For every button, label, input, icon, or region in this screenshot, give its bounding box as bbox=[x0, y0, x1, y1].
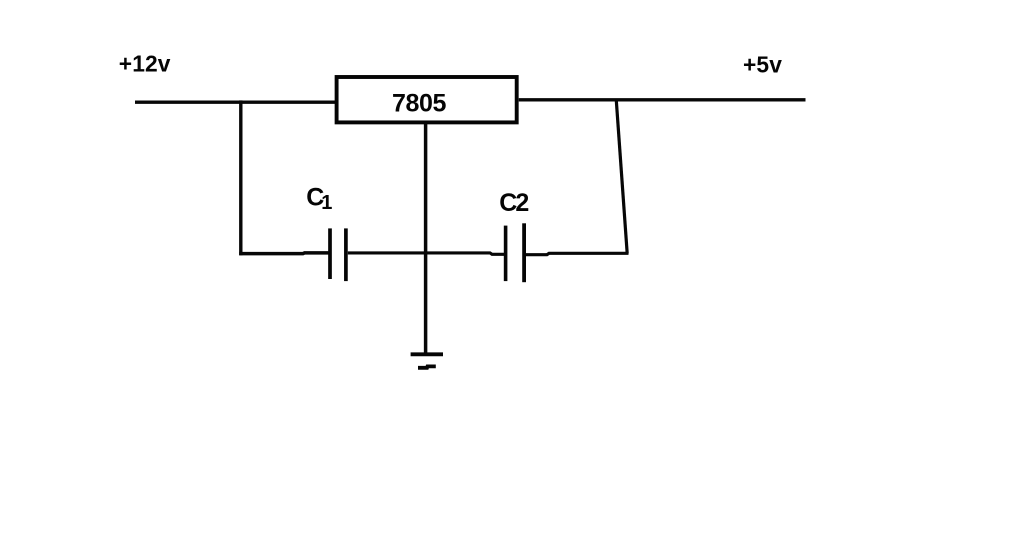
ground symbol bar 1 bbox=[411, 352, 443, 356]
wire ground rail segment middle (GND pin to C2) bbox=[426, 253, 505, 254]
regulator U1 7805 box bbox=[337, 77, 517, 122]
ground symbol bar 2 bbox=[418, 366, 436, 367]
capacitor C1 right plate bbox=[344, 228, 348, 281]
wire output horizontal to +5v bbox=[519, 98, 806, 101]
capacitor C2 right plate bbox=[522, 223, 526, 282]
capacitor C2 left plate bbox=[504, 226, 508, 282]
wire input-node vertical drop bbox=[239, 100, 242, 255]
wire input +12v horizontal bbox=[135, 101, 336, 104]
capacitor C1 left plate bbox=[328, 228, 332, 279]
svg-text:+5v: +5v bbox=[743, 51, 782, 77]
svg-text:1: 1 bbox=[321, 192, 332, 214]
wire output-node slanted drop bbox=[616, 101, 627, 254]
svg-text:C2: C2 bbox=[499, 189, 528, 217]
wire regulator GND pin vertical bbox=[424, 123, 428, 356]
svg-text:7805: 7805 bbox=[392, 90, 447, 118]
svg-text:+12v: +12v bbox=[119, 50, 171, 76]
wire ground rail segment left (node to C1) bbox=[239, 251, 328, 255]
wire ground rail segment middle (C1 to GND pin) bbox=[348, 251, 426, 254]
wire ground rail segment right (C2 to output drop) bbox=[526, 253, 629, 254]
